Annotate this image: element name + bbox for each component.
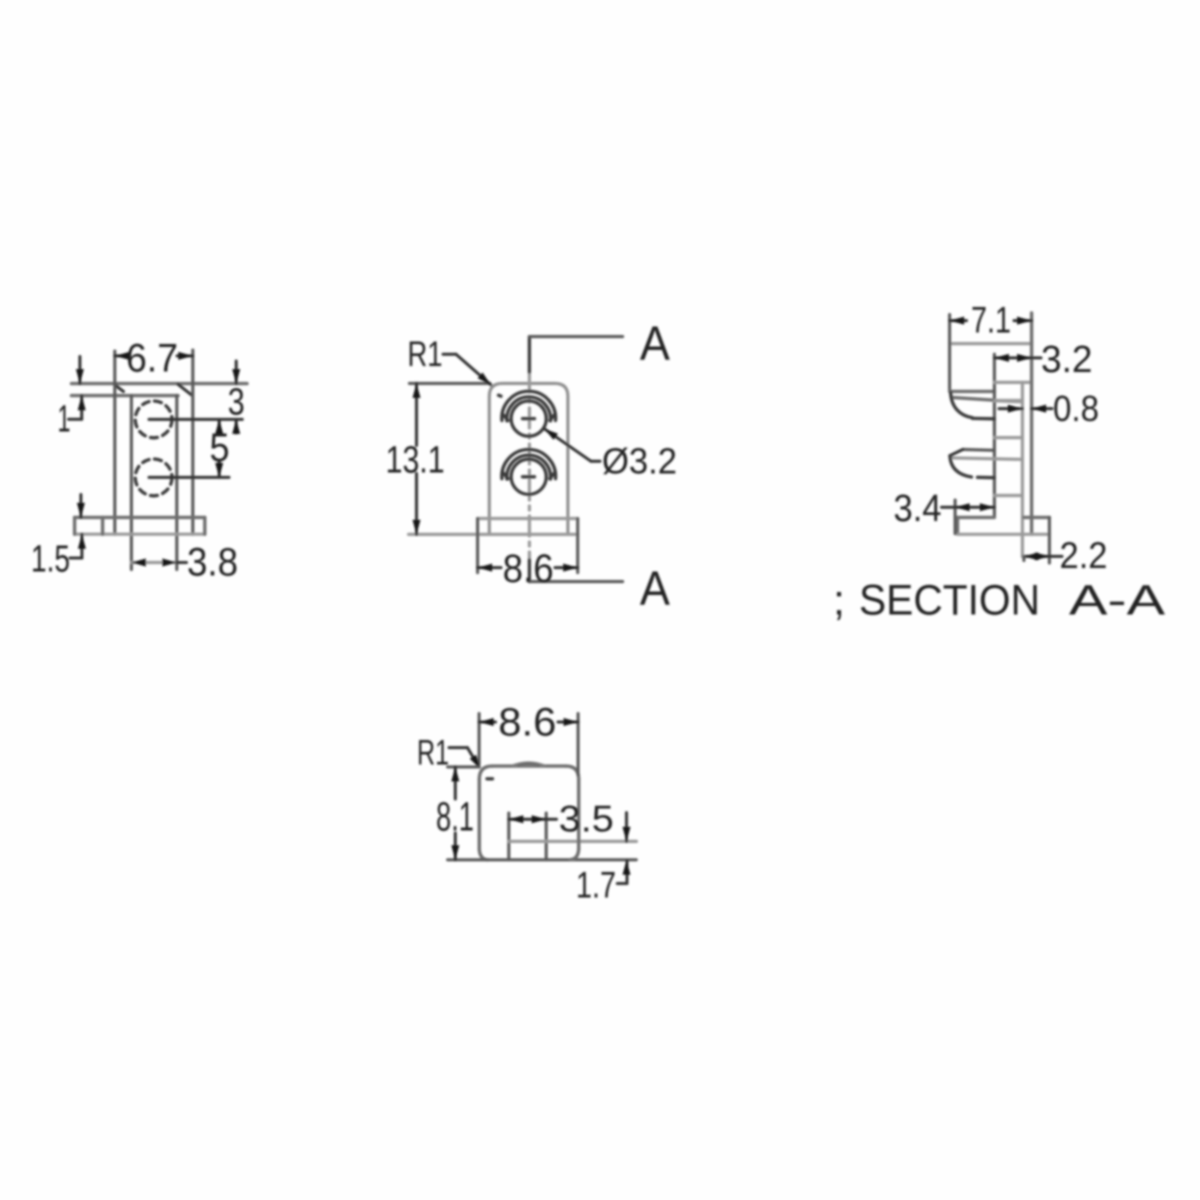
tab left bend mark: [115, 385, 124, 392]
svg-text:13.1: 13.1: [386, 440, 445, 482]
top-right corner: [566, 766, 579, 779]
right outer edge: [191, 350, 194, 534]
left edge: [478, 779, 481, 849]
top bump inner: [518, 764, 540, 766]
base left cap: [956, 517, 959, 534]
svg-text:8.6: 8.6: [503, 547, 554, 591]
svg-text:3.8: 3.8: [187, 541, 238, 585]
section line bottom: [528, 560, 531, 582]
top bump outer: [512, 763, 546, 766]
dim 8.1: [448, 765, 480, 768]
svg-text:8.6: 8.6: [498, 701, 556, 745]
top tab lower edge: [72, 394, 179, 397]
inner wall right edge: [175, 396, 178, 570]
hole 2 boss end ticks: [503, 473, 508, 479]
tab bottom step left: [950, 390, 995, 393]
dim 7.1: [950, 319, 967, 322]
dim 1: [78, 357, 81, 384]
tab left edge with 7.1 extension: [948, 315, 951, 392]
base top edge: [478, 517, 578, 520]
hole 1 boss inner arc: [507, 397, 551, 421]
bottom-right corner: [571, 849, 579, 860]
plate outer face with 7.1 extension: [1030, 313, 1033, 534]
svg-text:1: 1: [58, 399, 71, 441]
svg-text:1.7: 1.7: [576, 865, 616, 906]
svg-text:R1: R1: [417, 734, 449, 773]
hole1 centerline: [149, 418, 242, 421]
hole 1 top edge: [994, 399, 1022, 402]
svg-text:7.1: 7.1: [971, 300, 1011, 341]
left outer edge: [113, 351, 116, 534]
dim 3.4: [954, 500, 957, 534]
svg-text:Ø3.2: Ø3.2: [602, 441, 677, 482]
base top edge: [75, 516, 205, 519]
dim 6.7 line: [115, 354, 128, 357]
corner stray dot: [499, 395, 502, 396]
svg-text:3.4: 3.4: [894, 488, 942, 530]
top edge: [492, 764, 566, 767]
base bottom edge: [75, 533, 205, 536]
svg-text:0.8: 0.8: [1053, 388, 1099, 429]
base bottom edge with 13.1 extension: [409, 533, 578, 536]
svg-text:;: ;: [833, 577, 845, 625]
dim 1.7: [625, 813, 628, 842]
boss 2 apex: [950, 449, 963, 455]
svg-text:3: 3: [228, 382, 245, 424]
base step top: [958, 516, 995, 519]
base notch edge: [101, 517, 104, 534]
hidden hole 1: [135, 401, 172, 438]
dim 3.5: [509, 818, 546, 821]
dim 13.1: [415, 383, 418, 445]
svg-text:3.2: 3.2: [1041, 339, 1093, 381]
hole 2: [511, 459, 546, 494]
dim 8.6 bottom: [478, 714, 481, 765]
boss 1 bottom edge: [973, 417, 995, 421]
vertical centerline: [528, 372, 531, 560]
svg-text:1.5: 1.5: [31, 539, 70, 581]
dim 5: [218, 419, 221, 432]
hidden hole 2: [135, 459, 172, 496]
boss 2 bottom edge: [978, 476, 995, 480]
hole 2 bottom edge: [994, 494, 1022, 497]
svg-text:2.2: 2.2: [1060, 535, 1108, 576]
boss 2 top line: [963, 448, 994, 452]
boss 2 curved flank: [950, 456, 972, 477]
foot right edge with 2.2 extension: [1048, 517, 1051, 563]
stray tick: [487, 777, 493, 780]
13.1 top extension: [409, 382, 490, 385]
svg-text:A: A: [640, 563, 670, 616]
tab underside right: [994, 381, 1030, 384]
top tab upper edge: [72, 382, 248, 385]
svg-text:3.5: 3.5: [559, 799, 614, 840]
hole 2 boss outer arc: [502, 449, 556, 478]
dim 3.8: [131, 561, 176, 564]
dim 3: [235, 361, 238, 384]
right edge: [577, 779, 580, 849]
foot bottom / dim 2.2 line: [1024, 555, 1062, 558]
notch right edge with 3.5 extension: [545, 813, 548, 860]
section line top: [528, 337, 531, 372]
boss 2 lower line: [953, 458, 1023, 460]
dim 1.5: [79, 495, 82, 518]
base right edge / 8.6 extension: [576, 519, 579, 573]
base bottom: [958, 533, 1050, 536]
hole 1 bottom edge: [994, 436, 1022, 439]
base right cap: [203, 517, 206, 534]
hole 1 boss outer arc: [502, 391, 556, 420]
svg-text:A: A: [640, 318, 670, 371]
dim 8.6 front: [478, 566, 501, 569]
bottom edge / 8.1 extension: [448, 858, 637, 861]
top-left corner R1: [479, 766, 492, 779]
hole 1: [511, 401, 546, 436]
top edge: [950, 342, 1032, 345]
wall front face with 3.2 extension: [993, 354, 996, 517]
boss 1 top line: [952, 397, 994, 400]
bottom-left corner: [479, 849, 487, 860]
boss 1 curved flank: [951, 393, 973, 418]
svg-text:R1: R1: [408, 335, 443, 374]
tab right chamfer: [178, 384, 192, 395]
foot top: [1024, 516, 1050, 519]
notch top edge with 1.7 extension: [509, 840, 637, 843]
hole 2 boss inner arc: [507, 455, 551, 479]
body outline with rounded top corners: [489, 383, 568, 534]
dim 0.8: [999, 407, 1022, 410]
hole2 centerline: [149, 476, 229, 479]
svg-text:A-A: A-A: [1069, 577, 1165, 625]
svg-text:6.7: 6.7: [126, 337, 178, 381]
svg-text:5: 5: [210, 426, 230, 470]
svg-text:8.1: 8.1: [436, 794, 474, 840]
dim 3.2: [994, 356, 1041, 359]
base left cap: [73, 517, 76, 534]
svg-text:SECTION: SECTION: [859, 577, 1040, 625]
hole 1 boss end ticks: [503, 415, 508, 421]
plate inner face: [1021, 382, 1024, 556]
notch left edge with 3.5 extension: [507, 813, 510, 860]
inner wall left edge: [130, 396, 133, 570]
base left edge / 8.6 extension: [476, 519, 479, 573]
hole diameter leader: [544, 429, 591, 462]
